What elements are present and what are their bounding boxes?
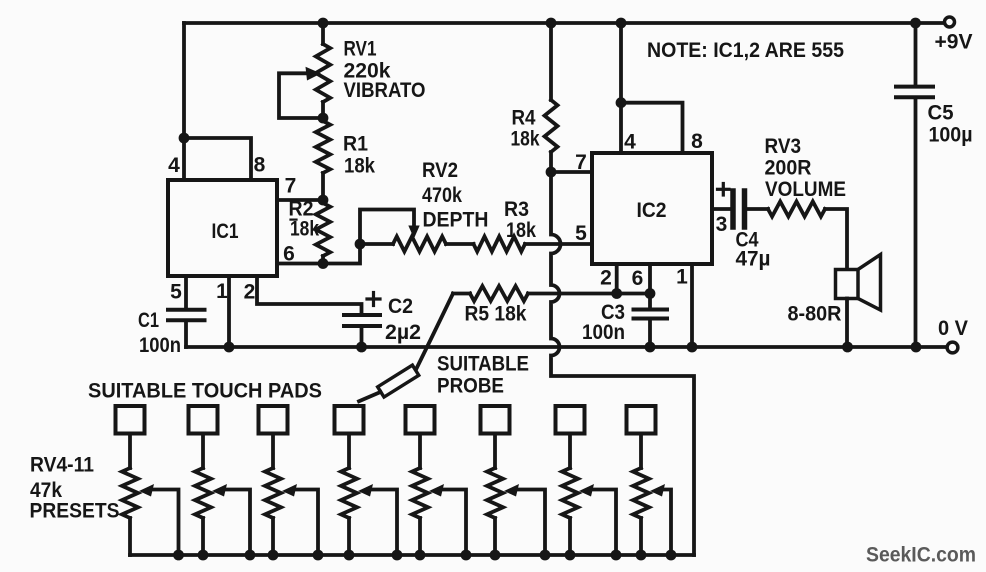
svg-text:470k: 470k (422, 183, 462, 207)
svg-text:RV3: RV3 (765, 134, 802, 158)
svg-text:R1: R1 (343, 132, 368, 156)
svg-text:VOLUME: VOLUME (765, 177, 846, 201)
svg-text:200R: 200R (765, 156, 812, 180)
svg-text:1: 1 (676, 266, 688, 289)
svg-text:18k: 18k (506, 218, 536, 242)
svg-text:100µ: 100µ (929, 123, 973, 147)
svg-text:SUITABLE TOUCH PADS: SUITABLE TOUCH PADS (88, 379, 322, 403)
svg-text:2: 2 (600, 267, 612, 290)
svg-text:RV2: RV2 (422, 158, 458, 182)
svg-text:5: 5 (170, 281, 182, 304)
svg-text:IC1: IC1 (212, 219, 239, 243)
svg-text:C2: C2 (388, 294, 413, 318)
svg-text:C1: C1 (138, 308, 159, 332)
svg-text:VIBRATO: VIBRATO (344, 78, 426, 102)
svg-text:100n: 100n (582, 320, 625, 344)
svg-text:4: 4 (624, 131, 636, 154)
svg-text:8: 8 (691, 130, 703, 153)
svg-text:2µ2: 2µ2 (385, 320, 421, 344)
svg-text:100n: 100n (139, 333, 181, 357)
svg-text:47µ: 47µ (736, 247, 771, 271)
svg-text:RV4-11: RV4-11 (30, 453, 94, 477)
svg-text:6: 6 (632, 267, 644, 290)
svg-text:7: 7 (285, 175, 297, 198)
svg-text:5: 5 (575, 222, 587, 245)
svg-text:8-80R: 8-80R (788, 302, 842, 326)
svg-text:IC2: IC2 (637, 198, 667, 222)
svg-text:8: 8 (254, 154, 266, 177)
svg-text:4: 4 (168, 154, 180, 177)
svg-text:C5: C5 (928, 101, 954, 125)
svg-text:18k: 18k (344, 154, 375, 178)
svg-text:2: 2 (244, 281, 256, 304)
svg-text:SUITABLE: SUITABLE (437, 352, 529, 376)
svg-text:1: 1 (216, 280, 228, 303)
svg-text:+9V: +9V (935, 30, 974, 54)
svg-text:DEPTH: DEPTH (423, 208, 489, 232)
svg-text:SeekIC.com: SeekIC.com (866, 544, 976, 567)
svg-text:NOTE: IC1,2 ARE 555: NOTE: IC1,2 ARE 555 (647, 38, 844, 62)
svg-text:PROBE: PROBE (437, 374, 504, 398)
svg-text:RV1: RV1 (344, 37, 377, 61)
svg-text:6: 6 (283, 243, 295, 266)
svg-text:18k: 18k (290, 217, 319, 241)
svg-text:PRESETS: PRESETS (30, 499, 120, 523)
svg-text:3: 3 (716, 213, 728, 236)
svg-text:0 V: 0 V (938, 316, 969, 340)
svg-text:18k: 18k (511, 127, 540, 151)
svg-text:R5 18k: R5 18k (465, 302, 527, 326)
svg-text:7: 7 (575, 151, 587, 174)
